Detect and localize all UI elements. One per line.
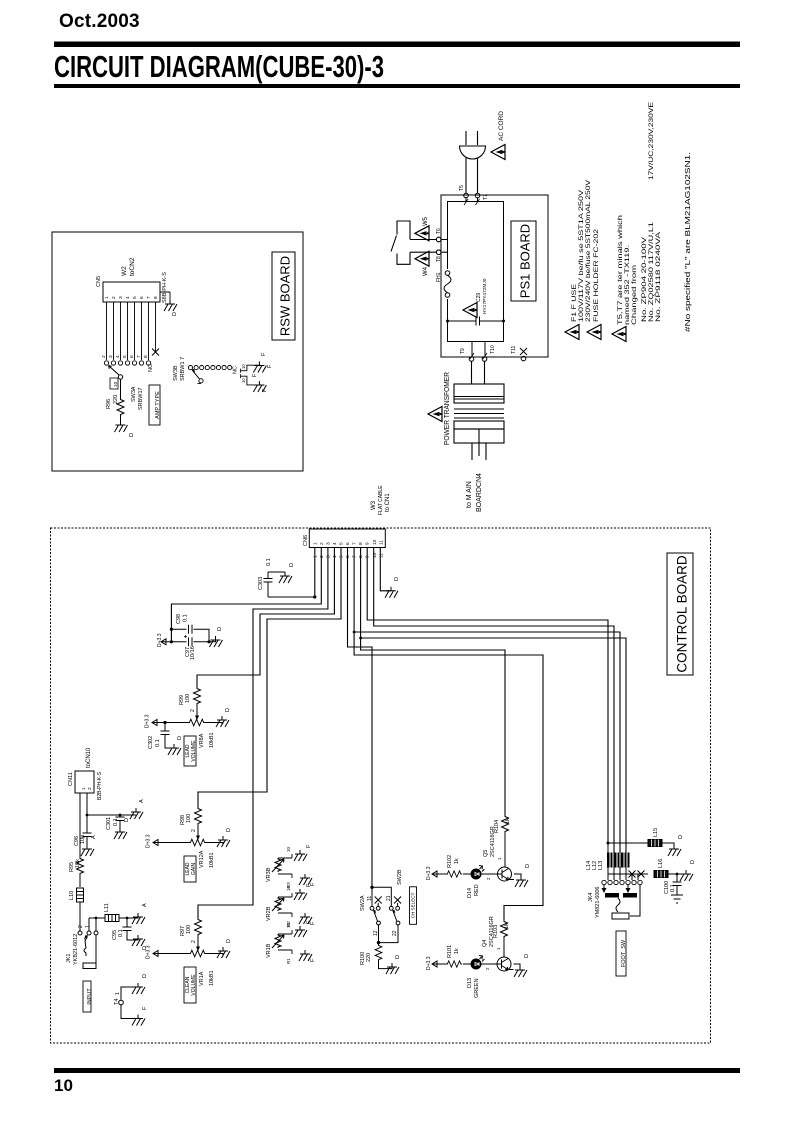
svg-text:T8: T8 <box>436 256 442 262</box>
svg-text:3: 3 <box>108 355 114 358</box>
svg-text:Oct.2003: Oct.2003 <box>59 11 140 32</box>
svg-text:Q4: Q4 <box>482 940 488 947</box>
svg-text:D+3.3: D+3.3 <box>145 714 151 728</box>
svg-text:CONTROL BOARD: CONTROL BOARD <box>675 555 690 673</box>
svg-text:7: 7 <box>352 542 358 545</box>
svg-text:F: F <box>142 1006 148 1010</box>
svg-text:0.1: 0.1 <box>155 739 161 747</box>
svg-text:A: A <box>91 835 97 839</box>
svg-text:D: D <box>525 864 531 868</box>
svg-text:F: F <box>252 373 258 377</box>
svg-text:L15: L15 <box>653 828 659 837</box>
svg-text:D: D <box>129 433 135 437</box>
svg-text:No. ZP904 20-100V: No. ZP904 20-100V <box>641 236 648 322</box>
svg-text:6: 6 <box>139 296 145 299</box>
svg-text:W3: W3 <box>371 500 377 510</box>
svg-text:8: 8 <box>358 542 364 545</box>
svg-text:T11: T11 <box>511 346 517 354</box>
svg-text:CIRCUIT DIAGRAM(CUBE-30)-3: CIRCUIT DIAGRAM(CUBE-30)-3 <box>54 49 384 84</box>
svg-text:D: D <box>690 860 696 864</box>
svg-text:AMP TYPE: AMP TYPE <box>155 391 161 419</box>
svg-text:VR1B: VR1B <box>266 943 272 958</box>
svg-text:2: 2 <box>101 355 107 358</box>
svg-text:10: 10 <box>372 552 378 558</box>
svg-text:PS1 BOARD: PS1 BOARD <box>517 224 532 298</box>
svg-text:100: 100 <box>186 814 192 823</box>
svg-text:1k: 1k <box>505 818 511 824</box>
svg-text:0.1: 0.1 <box>670 884 676 892</box>
svg-text:B2B-PH-K-S: B2B-PH-K-S <box>97 771 103 800</box>
svg-text:10k: 10k <box>75 859 81 868</box>
svg-text:RED: RED <box>474 884 480 896</box>
svg-text:5: 5 <box>122 355 128 358</box>
svg-text:RSW BOARD: RSW BOARD <box>277 256 292 336</box>
svg-text:1: 1 <box>497 857 502 860</box>
svg-text:VOLUME: VOLUME <box>191 740 197 762</box>
svg-text:1k: 1k <box>504 923 510 929</box>
svg-text:L16: L16 <box>658 859 664 868</box>
svg-text:C29: C29 <box>476 293 482 302</box>
svg-text:0.1: 0.1 <box>118 929 124 937</box>
svg-text:VR3B: VR3B <box>266 867 272 882</box>
svg-text:1: 1 <box>104 296 110 299</box>
svg-text:JK4: JK4 <box>588 893 594 902</box>
svg-text:10p: 10p <box>80 835 86 844</box>
svg-text:YKB21-6012: YKB21-6012 <box>73 934 79 965</box>
svg-text:toCN10: toCN10 <box>86 747 92 768</box>
svg-text:Changed from: Changed from <box>631 265 638 325</box>
svg-text:D: D <box>142 974 148 978</box>
svg-text:F: F <box>261 352 267 356</box>
svg-text:CN5: CN5 <box>96 276 102 287</box>
svg-text:100: 100 <box>185 694 191 703</box>
svg-text:D: D <box>226 828 232 832</box>
svg-text:FLAT CABLE: FLAT CABLE <box>378 485 384 515</box>
svg-text:R101: R101 <box>447 945 453 958</box>
svg-text:F: F <box>310 958 316 962</box>
svg-text:INPUT: INPUT <box>87 988 93 1005</box>
svg-text:10kB1: 10kB1 <box>209 970 215 986</box>
svg-text:D: D <box>177 736 183 740</box>
svg-text:S8B-PH-K-S: S8B-PH-K-S <box>162 272 168 303</box>
svg-text:17V/UC,230V,230VE: 17V/UC,230V,230VE <box>648 102 655 180</box>
svg-text:1k: 1k <box>454 948 460 954</box>
svg-text:100: 100 <box>186 925 192 934</box>
svg-text:T9: T9 <box>460 348 466 354</box>
svg-text:2: 2 <box>190 709 196 712</box>
svg-text:220: 220 <box>113 395 119 404</box>
svg-text:CN11: CN11 <box>68 772 74 786</box>
svg-text:POWER TRANSFOMER: POWER TRANSFOMER <box>444 372 451 445</box>
svg-text:T5: T5 <box>459 185 465 191</box>
svg-text:toCN2: toCN2 <box>129 257 136 276</box>
svg-text:21: 21 <box>386 895 392 901</box>
svg-text:9: 9 <box>365 542 371 545</box>
svg-text:1: 1 <box>81 787 87 790</box>
svg-text:D: D <box>678 835 684 839</box>
svg-text:2: 2 <box>319 555 325 558</box>
svg-text:VR8A: VR8A <box>199 733 205 748</box>
svg-text:D+3.3: D+3.3 <box>146 834 152 848</box>
svg-text:1: 1 <box>313 542 319 545</box>
svg-text:8: 8 <box>153 296 159 299</box>
svg-text:0.1: 0.1 <box>183 614 189 622</box>
svg-text:2: 2 <box>191 940 197 943</box>
svg-text:1: 1 <box>313 555 319 558</box>
svg-text:D: D <box>142 946 148 950</box>
svg-text:1: 1 <box>496 947 501 950</box>
svg-text:12: 12 <box>373 930 379 936</box>
svg-text:D+3.3: D+3.3 <box>426 956 432 970</box>
svg-text:D: D <box>225 708 231 712</box>
svg-text:2SC4116GR: 2SC4116GR <box>489 916 495 947</box>
svg-text:3: 3 <box>118 296 124 299</box>
svg-text:10: 10 <box>54 1076 73 1095</box>
svg-text:D14: D14 <box>467 888 473 898</box>
svg-text:T6: T6 <box>436 228 442 234</box>
svg-text:BOARDCN4: BOARDCN4 <box>476 473 483 512</box>
svg-text:No. ZP9118 0240VA: No. ZP9118 0240VA <box>655 231 662 322</box>
svg-text:D: D <box>124 818 130 822</box>
svg-text:T10: T10 <box>490 345 496 354</box>
svg-text:10/16: 10/16 <box>190 646 196 660</box>
svg-text:CH SELECT: CH SELECT <box>411 892 416 918</box>
svg-text:C303: C303 <box>258 577 264 590</box>
svg-text:CN6: CN6 <box>303 535 309 546</box>
svg-text:D: D <box>172 312 178 316</box>
svg-text:C98: C98 <box>176 614 182 624</box>
svg-text:4: 4 <box>115 355 121 358</box>
svg-text:4: 4 <box>125 296 131 299</box>
svg-text:D: D <box>394 577 400 581</box>
svg-text:W5: W5 <box>423 216 429 226</box>
svg-text:Q5: Q5 <box>483 850 489 857</box>
svg-text:D: D <box>524 954 530 958</box>
svg-text:11: 11 <box>367 896 373 901</box>
svg-text:R1: R1 <box>286 958 291 964</box>
svg-text:No. ZQ02580 117V/U,L1: No. ZQ02580 117V/U,L1 <box>648 221 655 322</box>
svg-text:11: 11 <box>379 553 385 558</box>
svg-text:L13: L13 <box>598 861 604 870</box>
svg-text:D13: D13 <box>467 978 473 988</box>
svg-text:VOLUME: VOLUME <box>191 974 197 996</box>
svg-text:1: 1 <box>85 925 91 928</box>
svg-text:10: 10 <box>113 381 119 387</box>
svg-text:F: F <box>306 844 312 848</box>
svg-text:7: 7 <box>136 355 142 358</box>
svg-text:YM821-6006: YM821-6006 <box>595 887 601 919</box>
svg-text:#No specified "L" are BLM21AG1: #No specified "L" are BLM21AG102SN1. <box>683 152 692 332</box>
svg-text:7: 7 <box>146 296 152 299</box>
svg-text:F1 F USE: F1 F USE <box>571 284 578 322</box>
svg-text:8: 8 <box>143 355 149 358</box>
svg-text:2: 2 <box>191 829 197 832</box>
svg-text:10: 10 <box>241 378 246 383</box>
svg-text:FUSE HOLDER FC-202: FUSE HOLDER FC-202 <box>593 228 600 322</box>
svg-text:R96: R96 <box>106 399 112 409</box>
svg-text:230V/240V be/fuse 5ST500mAL 25: 230V/240V be/fuse 5ST500mAL 250V <box>585 179 592 322</box>
svg-text:5: 5 <box>132 296 138 299</box>
svg-text:2: 2 <box>111 296 117 299</box>
svg-text:10: 10 <box>286 922 291 928</box>
svg-text:1: 1 <box>115 992 121 995</box>
svg-text:D: D <box>226 939 232 943</box>
svg-text:220: 220 <box>366 953 372 962</box>
svg-text:2: 2 <box>319 542 325 545</box>
svg-text:SW3A: SW3A <box>131 386 137 402</box>
svg-text:L10: L10 <box>69 891 75 900</box>
svg-text:4: 4 <box>332 555 338 558</box>
svg-text:HY17PY472MJ0: HY17PY472MJ0 <box>482 278 488 314</box>
svg-text:1k: 1k <box>454 858 460 864</box>
svg-text:VR2B: VR2B <box>266 906 272 921</box>
svg-text:SW2B: SW2B <box>397 869 403 885</box>
svg-text:to M AIN: to M AIN <box>466 481 473 508</box>
svg-text:R102: R102 <box>447 855 453 868</box>
svg-text:T5,T7 are ter minals which: T5,T7 are ter minals which <box>617 214 624 325</box>
svg-text:5: 5 <box>339 542 345 545</box>
svg-text:10kB1: 10kB1 <box>209 852 215 868</box>
svg-text:JK1: JK1 <box>66 954 72 963</box>
svg-text:A: A <box>139 799 145 803</box>
svg-text:10: 10 <box>286 846 291 852</box>
svg-text:VR1A: VR1A <box>199 971 205 986</box>
svg-text:D: D <box>395 955 401 959</box>
svg-text:0.1: 0.1 <box>113 818 119 826</box>
svg-text:named 352 -TX119.: named 352 -TX119. <box>624 245 631 325</box>
svg-text:W2: W2 <box>121 266 128 276</box>
svg-text:C302: C302 <box>148 736 154 749</box>
svg-text:SW3B: SW3B <box>173 365 179 381</box>
svg-text:F: F <box>262 388 268 392</box>
svg-text:22: 22 <box>392 930 398 936</box>
svg-text:3: 3 <box>326 542 332 545</box>
svg-text:A: A <box>142 903 148 907</box>
svg-text:T7: T7 <box>483 194 489 200</box>
svg-text:L11: L11 <box>104 903 110 912</box>
svg-text:2: 2 <box>78 925 84 928</box>
svg-text:2: 2 <box>87 787 93 790</box>
svg-text:FOOT_SW: FOOT_SW <box>621 939 627 967</box>
svg-text:D: D <box>217 627 223 631</box>
svg-text:2: 2 <box>485 967 490 970</box>
svg-text:C301: C301 <box>106 817 112 830</box>
svg-text:D+3.3: D+3.3 <box>426 866 432 880</box>
svg-text:SW2A: SW2A <box>360 895 366 911</box>
svg-text:AC CORD: AC CORD <box>498 111 505 141</box>
svg-text:2SC4116GR: 2SC4116GR <box>490 826 496 857</box>
svg-text:10: 10 <box>286 885 291 891</box>
svg-text:2: 2 <box>486 877 491 880</box>
svg-text:GAIN: GAIN <box>191 863 197 876</box>
svg-text:FH1: FH1 <box>436 272 442 282</box>
svg-text:10: 10 <box>372 539 378 545</box>
svg-text:W4: W4 <box>423 266 429 276</box>
svg-text:4: 4 <box>332 542 338 545</box>
svg-text:VR12A: VR12A <box>199 850 205 868</box>
svg-text:F: F <box>267 364 273 368</box>
svg-text:SRBW1 7: SRBW1 7 <box>180 357 186 381</box>
svg-text:6: 6 <box>129 355 135 358</box>
svg-text:SRBW17: SRBW17 <box>138 387 144 410</box>
svg-text:GREEN: GREEN <box>474 978 480 998</box>
svg-text:F: F <box>306 920 312 924</box>
svg-text:10: 10 <box>241 364 246 369</box>
svg-text:100V/117V be/fu se 5ST1A 250V: 100V/117V be/fu se 5ST1A 250V <box>578 189 585 322</box>
svg-text:3: 3 <box>326 555 332 558</box>
svg-text:to CN1: to CN1 <box>385 493 391 512</box>
svg-text:NC: NC <box>233 366 239 374</box>
svg-text:0.1: 0.1 <box>266 558 272 566</box>
svg-text:10kB1: 10kB1 <box>209 732 215 748</box>
svg-text:11: 11 <box>379 540 385 545</box>
svg-text:6: 6 <box>345 542 351 545</box>
svg-text:D+3.3: D+3.3 <box>157 633 163 647</box>
svg-text:D: D <box>289 563 295 567</box>
